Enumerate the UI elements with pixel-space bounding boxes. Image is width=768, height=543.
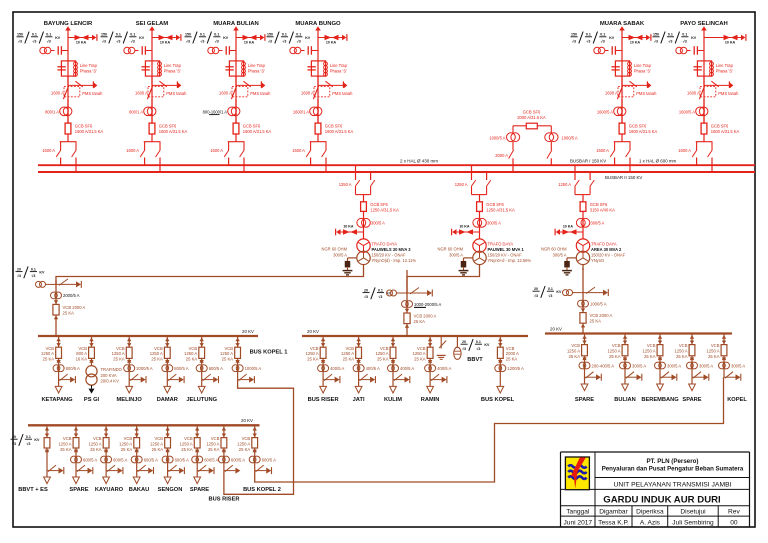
20kV feeder SPARE <box>58 425 97 493</box>
svg-text:20 KV: 20 KV <box>241 418 253 423</box>
svg-text:PMS tanah: PMS tanah <box>636 91 657 96</box>
current transformer <box>317 99 319 122</box>
outgoing arrow <box>622 384 629 391</box>
20kV feeder KOPEL <box>706 334 747 404</box>
svg-text:25 KA: 25 KA <box>676 354 688 359</box>
bus voltage transformer BBVT <box>454 336 490 363</box>
svg-text:√3: √3 <box>378 295 382 299</box>
20kV feeder BEREMBANG <box>641 334 681 404</box>
svg-text:√3: √3 <box>116 39 120 43</box>
svg-text:PAYO SELINCAH: PAYO SELINCAH <box>680 21 727 27</box>
svg-text:1000/5 A: 1000/5 A <box>590 301 607 306</box>
svg-text:√3: √3 <box>17 274 21 278</box>
svg-text:NGR 60 OHM: NGR 60 OHM <box>541 247 567 252</box>
power transformer PAUWELS 30 MVA 3 <box>357 239 370 252</box>
svg-text:Line Trap: Line Trap <box>248 63 266 68</box>
svg-text:800/5 A: 800/5 A <box>66 366 80 371</box>
svg-text:1250 A: 1250 A <box>89 442 102 447</box>
switch with surge arrester <box>56 283 76 285</box>
feeder line <box>105 425 107 470</box>
vacuum circuit breaker VCB <box>104 427 108 431</box>
svg-text:20 KV: 20 KV <box>550 326 562 331</box>
vacuum circuit breaker VCB <box>165 338 169 342</box>
20kV feeder BUS KOPEL <box>481 336 524 403</box>
incoming line with up arrow <box>619 26 625 30</box>
svg-text:2000/5 A: 2000/5 A <box>63 293 80 298</box>
power transformer PAUWEL 30 MVA 1 <box>473 239 486 252</box>
150kV line bay PAYO SELINCAH <box>653 21 746 172</box>
svg-text:2000/5 A: 2000/5 A <box>136 366 153 371</box>
current transformer <box>196 365 203 372</box>
current transformer <box>124 365 131 372</box>
150kV line bay MUARA BUNGO <box>267 21 354 172</box>
svg-text:VCB: VCB <box>93 436 102 441</box>
outgoing arrow <box>133 477 140 484</box>
svg-text:√3: √3 <box>215 39 219 43</box>
svg-text:TRAFINDO: TRAFINDO <box>101 367 123 372</box>
svg-text:MUARA SABAK: MUARA SABAK <box>600 21 645 27</box>
svg-text:BUSBAR II 150 KV: BUSBAR II 150 KV <box>605 175 642 180</box>
20kV feeder PS GI with station service transformer <box>76 336 123 403</box>
20kV feeder SPARE <box>180 425 219 493</box>
svg-text:√3: √3 <box>26 442 30 446</box>
svg-text:VCB: VCB <box>211 436 220 441</box>
20kV feeder BUS KOPEL 1 <box>220 336 287 383</box>
svg-text:0.1: 0.1 <box>214 33 219 37</box>
current transformer <box>687 362 694 369</box>
circuit breaker GCB SF6 <box>315 123 321 134</box>
svg-text:25 KA: 25 KA <box>377 357 389 362</box>
svg-text:600/5 A: 600/5 A <box>113 457 127 462</box>
vacuum circuit breaker VCB <box>582 335 586 339</box>
20kV feeder BUS KOPEL 2 <box>237 425 281 493</box>
current transformer <box>719 362 726 369</box>
line trap <box>145 61 159 76</box>
20kV incoming line from power transformer <box>533 268 613 334</box>
svg-text:A. Azis: A. Azis <box>640 519 661 526</box>
surge arrester branch 10 KA <box>318 37 342 39</box>
load break switch with surge arrester <box>202 379 214 381</box>
current transformer <box>235 99 237 122</box>
svg-text:800/5 A: 800/5 A <box>174 366 188 371</box>
CVT capacitor voltage transformer <box>124 47 131 54</box>
svg-text:√3: √3 <box>131 39 135 43</box>
svg-text:BUS KOPEL: BUS KOPEL <box>481 397 515 403</box>
svg-text:VCB: VCB <box>310 346 319 351</box>
svg-text:BAYUNG LENCIR: BAYUNG LENCIR <box>44 21 93 27</box>
surge arrester branch 10 KA <box>68 37 92 39</box>
svg-text:1250 A: 1250 A <box>607 349 620 354</box>
incoming VCB 2000 A <box>405 309 409 313</box>
svg-text:VCB: VCB <box>647 343 656 348</box>
svg-text:BUS KOPEL 2: BUS KOPEL 2 <box>243 487 281 493</box>
svg-text:BUS RISER: BUS RISER <box>308 397 339 403</box>
svg-text:PT. PLN (Persero): PT. PLN (Persero) <box>647 458 699 465</box>
svg-text:NGR 60 OHM: NGR 60 OHM <box>322 247 348 252</box>
current transformer <box>655 362 662 369</box>
load break switch with surge arrester <box>238 379 250 381</box>
CVT capacitor voltage transformer <box>676 47 683 54</box>
svg-text:KV: KV <box>556 290 562 294</box>
svg-text:VCB: VCB <box>154 436 163 441</box>
svg-text:0.1: 0.1 <box>200 33 205 37</box>
feeder line <box>392 336 394 380</box>
svg-text:KAYUARO: KAYUARO <box>95 487 124 493</box>
svg-text:1250 A: 1250 A <box>150 442 163 447</box>
incoming VCB 2000 A <box>54 300 58 304</box>
svg-text:√3: √3 <box>297 39 301 43</box>
svg-text:1250 A: 1250 A <box>180 442 193 447</box>
outgoing arrow <box>320 386 327 393</box>
svg-text:1600 A: 1600 A <box>605 91 618 96</box>
svg-text:SEI GELAM: SEI GELAM <box>136 21 168 27</box>
current transformer <box>425 365 432 372</box>
150kV line bay SEI GELAM <box>101 21 188 172</box>
svg-text:UNIT PELAYANAN TRANSMISI JAMBI: UNIT PELAYANAN TRANSMISI JAMBI <box>613 481 731 488</box>
feeder line <box>499 336 501 380</box>
svg-text:KETAPANG: KETAPANG <box>41 397 73 403</box>
surge arrester branch 10 KA <box>236 37 260 39</box>
svg-text:MUARA BUNGO: MUARA BUNGO <box>295 21 341 27</box>
feeder line <box>58 336 60 380</box>
svg-text:25 KA: 25 KA <box>151 357 163 362</box>
svg-text:1250 A: 1250 A <box>184 351 197 356</box>
outgoing arrow <box>103 477 110 484</box>
current transformer <box>131 456 138 463</box>
svg-text:800-1600/1 A: 800-1600/1 A <box>203 109 228 114</box>
svg-text:25 KA: 25 KA <box>307 357 319 362</box>
incoming line with up arrow <box>233 26 239 30</box>
20kV feeder BUS RISER <box>306 336 345 403</box>
svg-text:GCB SF6: GCB SF6 <box>629 123 647 128</box>
svg-text:0.1: 0.1 <box>668 33 673 37</box>
svg-text:10 KA: 10 KA <box>160 41 171 45</box>
power transformer AREA 30 MVA 2 <box>576 239 589 252</box>
vacuum circuit breaker VCB <box>321 338 325 342</box>
wire transformer T1 to 20kV bus section A <box>56 265 364 284</box>
svg-text:10 KA: 10 KA <box>326 41 337 45</box>
svg-text:SPARE: SPARE <box>682 397 701 403</box>
feeder line <box>624 334 626 378</box>
svg-text:1250 A: 1250 A <box>339 182 352 187</box>
svg-text:20 KV: 20 KV <box>242 329 254 334</box>
svg-text:√3: √3 <box>31 274 35 278</box>
svg-text:0.1: 0.1 <box>296 33 301 37</box>
outgoing arrow <box>657 384 664 391</box>
outgoing arrow <box>44 477 51 484</box>
svg-text:10 KA: 10 KA <box>244 41 255 45</box>
svg-text:1600/5 A: 1600/5 A <box>679 109 695 114</box>
20kV feeder JELUTUNG <box>184 336 223 403</box>
feeder line <box>237 336 239 380</box>
outgoing arrow <box>689 384 696 391</box>
svg-text:VCB: VCB <box>224 346 233 351</box>
svg-text:√3: √3 <box>47 39 51 43</box>
svg-text:KV: KV <box>55 36 61 40</box>
svg-text:BUS KOPEL 1: BUS KOPEL 1 <box>250 350 288 356</box>
svg-text:20/0.4 KV: 20/0.4 KV <box>101 378 120 383</box>
busbar II 150 KV <box>38 171 755 173</box>
circuit breaker GCB SF6 <box>233 123 239 134</box>
20kV feeder KETAPANG <box>41 336 80 403</box>
svg-text:10 KA: 10 KA <box>459 224 470 228</box>
outgoing arrow <box>164 477 171 484</box>
svg-text:VCB: VCB <box>571 343 580 348</box>
svg-text:PMS tanah: PMS tanah <box>250 91 271 96</box>
20kV busbar section C <box>28 424 260 426</box>
vacuum circuit breaker VCB <box>235 338 239 342</box>
svg-text:0.1: 0.1 <box>32 33 37 37</box>
20kV feeder KULIM <box>375 336 414 403</box>
svg-text:√3: √3 <box>268 39 272 43</box>
20kV feeder BULIAN <box>607 334 646 404</box>
load break switch with surge arrester <box>393 379 405 381</box>
svg-text:150: 150 <box>17 33 23 37</box>
svg-text:Line Trap: Line Trap <box>330 63 348 68</box>
svg-text:20 KV: 20 KV <box>307 329 319 334</box>
circuit breaker GCB SF6 <box>361 202 367 212</box>
svg-text:1600 A: 1600 A <box>42 148 55 153</box>
svg-text:25 KA: 25 KA <box>43 357 55 362</box>
svg-text:25 KA: 25 KA <box>590 319 602 324</box>
vacuum circuit breaker VCB <box>690 335 694 339</box>
svg-text:25 KA: 25 KA <box>644 354 656 359</box>
load break switch with surge arrester <box>129 379 141 381</box>
svg-text:25 KA: 25 KA <box>222 357 234 362</box>
svg-text:400/5 A: 400/5 A <box>437 366 451 371</box>
svg-text:1600 A: 1600 A <box>678 148 691 153</box>
current transformer <box>51 292 58 299</box>
20kV feeder BBVT + ES <box>11 425 64 493</box>
svg-text:SPARE: SPARE <box>190 487 209 493</box>
svg-text:1250 A: 1250 A <box>58 442 71 447</box>
svg-text:1250 A: 1250 A <box>674 349 687 354</box>
svg-text:√3: √3 <box>282 39 286 43</box>
surge arrester branch 10 KA <box>704 37 741 39</box>
svg-text:1600 A: 1600 A <box>135 91 148 96</box>
svg-text:MELINJO: MELINJO <box>117 397 143 403</box>
svg-text:√3: √3 <box>462 347 466 351</box>
svg-text:150: 150 <box>653 33 659 37</box>
CVT capacitor voltage transformer <box>290 47 297 54</box>
bus coupler GCB SF6 2000 A <box>489 110 578 172</box>
svg-text:VCB 2000 A: VCB 2000 A <box>63 305 86 310</box>
feeder line <box>691 334 693 378</box>
current transformer <box>162 365 169 372</box>
line trap <box>61 61 75 76</box>
current transformer <box>232 365 239 372</box>
outgoing arrow <box>126 386 133 393</box>
svg-text:1250 A/31.5 KA: 1250 A/31.5 KA <box>370 208 399 213</box>
load break switch with surge arrester <box>724 376 736 378</box>
svg-text:0.1: 0.1 <box>282 33 287 37</box>
svg-text:VCB: VCB <box>45 346 54 351</box>
svg-text:1250 A: 1250 A <box>237 442 250 447</box>
svg-text:VCB: VCB <box>612 343 621 348</box>
svg-text:1600 A/31.5 KA: 1600 A/31.5 KA <box>243 129 272 134</box>
svg-text:600/5 A: 600/5 A <box>262 457 276 462</box>
svg-text:VCB: VCB <box>380 346 389 351</box>
vacuum circuit breaker VCB <box>127 338 131 342</box>
svg-text:BUS RISER: BUS RISER <box>209 497 240 503</box>
svg-text:2 x HAL Ø 430 mm: 2 x HAL Ø 430 mm <box>400 159 438 164</box>
svg-text:PMS tanah: PMS tanah <box>332 91 353 96</box>
current transformer <box>495 365 502 372</box>
svg-text:1250 A/31.5 KA: 1250 A/31.5 KA <box>486 208 515 213</box>
outgoing arrow <box>355 386 362 393</box>
current transformer <box>67 99 69 122</box>
svg-text:0.1: 0.1 <box>378 288 383 292</box>
feeder line <box>723 334 725 378</box>
svg-text:√3: √3 <box>200 39 204 43</box>
current transformer <box>579 362 586 369</box>
outgoing arrow <box>427 386 434 393</box>
svg-text:2000 A: 2000 A <box>506 351 519 356</box>
svg-text:Phasa 'S': Phasa 'S' <box>80 68 97 73</box>
20kV feeder DAMAR <box>150 336 189 403</box>
svg-text:VCB: VCB <box>242 436 251 441</box>
load break switch with surge arrester <box>625 376 637 378</box>
svg-text:GCB SF6: GCB SF6 <box>370 202 388 207</box>
CVT capacitor voltage transformer <box>40 47 47 54</box>
load break switch with surge arrester <box>323 379 335 381</box>
svg-text:0.1: 0.1 <box>116 33 121 37</box>
svg-text:Phasa 'S': Phasa 'S' <box>716 68 733 73</box>
current transformer <box>53 365 60 372</box>
bay line <box>582 195 584 239</box>
incoming line with up arrow <box>65 26 71 30</box>
feeder line <box>167 425 169 470</box>
outgoing arrow <box>73 477 80 484</box>
svg-text:150: 150 <box>185 33 191 37</box>
feeder line <box>196 425 198 470</box>
svg-text:1250 A: 1250 A <box>41 351 54 356</box>
svg-text:25 KA: 25 KA <box>63 310 75 315</box>
svg-text:GCB SF6: GCB SF6 <box>590 202 608 207</box>
switch with surge arrester <box>407 292 427 294</box>
150kV line bay MUARA SABAK <box>571 21 658 172</box>
outgoing arrow <box>390 386 397 393</box>
svg-text:AREA 30 MVA 2: AREA 30 MVA 2 <box>591 247 622 252</box>
svg-text:300/5 A: 300/5 A <box>333 252 347 257</box>
feeder line <box>128 336 130 380</box>
svg-text:PAUWELS 30 MVA 3: PAUWELS 30 MVA 3 <box>372 247 412 252</box>
svg-text:GARDU INDUK AUR DURI: GARDU INDUK AUR DURI <box>603 494 721 505</box>
svg-text:25 KA: 25 KA <box>239 447 251 452</box>
20kV feeder SPARE <box>674 334 713 404</box>
line trap <box>229 61 243 76</box>
surge arrester branch 10 KA <box>622 37 646 39</box>
svg-text:1000/5 A: 1000/5 A <box>489 135 505 140</box>
svg-text:√3: √3 <box>476 347 480 351</box>
bay line <box>363 195 365 239</box>
svg-text:VCB: VCB <box>345 346 354 351</box>
wire transformer T3 down to 20kV bus section D <box>582 265 584 270</box>
svg-text:1600 A: 1600 A <box>687 91 700 96</box>
feeder line <box>429 336 431 380</box>
20kV incoming line from power transformer <box>363 270 442 336</box>
svg-text:300/5 A: 300/5 A <box>487 220 501 225</box>
svg-text:300/5 A: 300/5 A <box>632 363 646 368</box>
svg-text:1600 A/31.5 KA: 1600 A/31.5 KA <box>75 129 104 134</box>
load break switch with surge arrester <box>76 470 88 472</box>
svg-text:Digambar: Digambar <box>599 509 628 516</box>
circuit breaker GCB SF6 <box>149 123 155 134</box>
svg-text:20: 20 <box>17 267 21 271</box>
svg-text:PMS tanah: PMS tanah <box>166 91 187 96</box>
svg-text:VCB: VCB <box>154 346 163 351</box>
svg-text:0.1: 0.1 <box>26 435 31 439</box>
svg-text:1 x HAL Ø 600 mm: 1 x HAL Ø 600 mm <box>639 159 677 164</box>
svg-text:Phasa 'S': Phasa 'S' <box>330 68 347 73</box>
svg-text:JELUTUNG: JELUTUNG <box>186 397 217 403</box>
svg-text:VCB: VCB <box>189 346 198 351</box>
load break switch with surge arrester <box>224 470 236 472</box>
vacuum circuit breaker VCB <box>356 338 360 342</box>
svg-text:0.1: 0.1 <box>130 33 135 37</box>
current transformer <box>218 456 225 463</box>
svg-text:3150 A/40 KA: 3150 A/40 KA <box>590 208 615 213</box>
svg-text:800 A: 800 A <box>76 351 87 356</box>
svg-text:600/5 A: 600/5 A <box>144 457 158 462</box>
svg-text:TRAFO DAYA: TRAFO DAYA <box>488 241 514 246</box>
load break switch with surge arrester <box>137 470 149 472</box>
PLN logo <box>565 457 589 490</box>
svg-text:600/5 A: 600/5 A <box>175 457 189 462</box>
current transformer <box>578 300 585 307</box>
svg-text:GCB SF6: GCB SF6 <box>243 123 261 128</box>
svg-text:√3: √3 <box>683 39 687 43</box>
current transformer <box>192 456 199 463</box>
svg-text:0.1: 0.1 <box>600 33 605 37</box>
svg-text:BAKAU: BAKAU <box>129 487 150 493</box>
svg-text:0.1: 0.1 <box>586 33 591 37</box>
svg-text:VCB: VCB <box>63 436 72 441</box>
switch with surge arrester <box>47 470 59 472</box>
outgoing arrow <box>194 477 201 484</box>
svg-text:YNynO(d) - Imp. 12.11%: YNynO(d) - Imp. 12.11% <box>372 258 417 263</box>
svg-text:GCB SF6: GCB SF6 <box>486 202 504 207</box>
svg-text:√3: √3 <box>534 294 538 298</box>
svg-text:25 KA: 25 KA <box>569 354 581 359</box>
svg-text:KV: KV <box>609 36 615 40</box>
outgoing arrow <box>55 386 62 393</box>
svg-text:20: 20 <box>12 435 16 439</box>
svg-text:KV: KV <box>484 343 490 347</box>
line trap <box>615 61 629 76</box>
20kV incoming line from power transformer <box>16 266 86 336</box>
svg-text:600/5 A: 600/5 A <box>231 457 245 462</box>
vacuum circuit breaker VCB <box>135 427 139 431</box>
busbar labels <box>400 159 677 181</box>
svg-text:25 KA: 25 KA <box>708 354 720 359</box>
svg-text:√3: √3 <box>364 295 368 299</box>
svg-text:1250 A: 1250 A <box>112 351 125 356</box>
current transformer <box>388 365 395 372</box>
vacuum circuit breaker VCB <box>428 338 432 342</box>
svg-text:300/5 A: 300/5 A <box>667 363 681 368</box>
current transformer <box>101 456 108 463</box>
svg-text:VCB: VCB <box>711 343 720 348</box>
svg-text:VCB: VCB <box>116 346 125 351</box>
current transformer <box>620 362 627 369</box>
svg-text:GCB SF6: GCB SF6 <box>711 123 729 128</box>
svg-text:400/5 A: 400/5 A <box>366 366 380 371</box>
feeder line <box>75 425 77 470</box>
feeder line <box>136 425 138 470</box>
svg-text:Phasa 'S': Phasa 'S' <box>634 68 651 73</box>
svg-text:KV: KV <box>223 36 229 40</box>
